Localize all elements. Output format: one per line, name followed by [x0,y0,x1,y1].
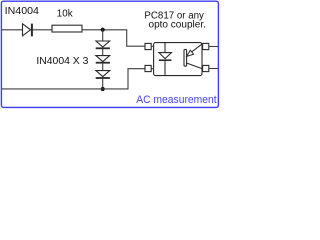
pin 2 [145,65,151,71]
frame border [1,1,218,107]
LED inside opto [164,43,166,53]
wire chain top [102,30,104,41]
svg-text:IN4004: IN4004 [5,6,40,17]
wire bottom rail to opto pin2 [2,69,145,89]
wire chain 2-3 [102,63,104,71]
diode D1 IN4004 (horizontal) [23,24,31,36]
wire chain 1-2 [102,48,104,55]
node junction bottom [101,87,105,91]
emitter line [187,63,203,69]
pin 1 [145,43,151,49]
collector line with light arrow [187,44,202,55]
wire diode to resistor [33,29,52,31]
wire pin3 to edge [209,68,218,70]
svg-text:IN4004 X 3: IN4004 X 3 [36,56,88,67]
opto U1 PC817 body [154,43,202,76]
wire pin4 to edge [209,46,218,48]
wire top-left to diode D1 [2,29,23,31]
pin 4 [203,43,209,49]
svg-text:AC measurement: AC measurement [136,94,217,106]
diode D2 (chain 1) [96,41,110,47]
svg-text:opto coupler.: opto coupler. [149,19,206,30]
svg-text:10k: 10k [57,8,74,19]
wire chain bottom [102,78,104,89]
wire resistor to corner, down to opto pin1 [82,30,145,46]
phototransistor Q1 inside opto [184,49,187,66]
resistor R1 10k [52,25,82,32]
node junction top [101,28,105,32]
diode D3 (chain 2) [96,56,110,62]
diode D4 (chain 3) [96,71,110,77]
pin 3 [203,65,209,71]
